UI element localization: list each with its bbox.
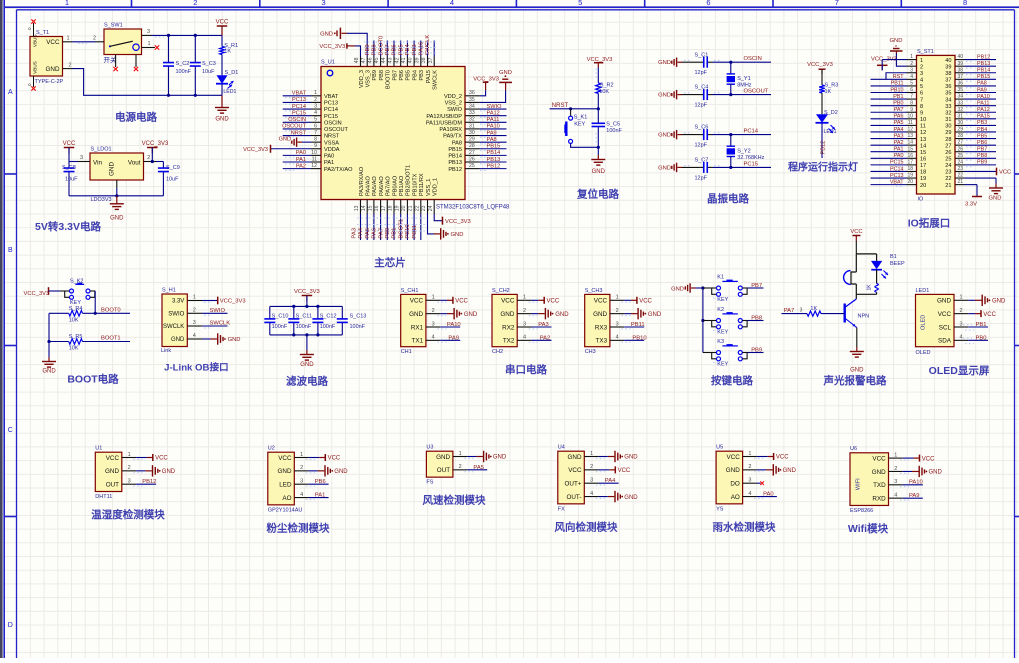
connector S_CH2	[492, 288, 532, 355]
svg-text:31: 31	[957, 113, 963, 119]
svg-text:OUT: OUT	[106, 482, 119, 489]
power port VCC (S_CH3 pin1)	[621, 297, 652, 305]
svg-text:PA0: PA0	[763, 491, 774, 497]
svg-text:AO: AO	[731, 494, 740, 501]
svg-text:GND: GND	[872, 469, 886, 476]
svg-text:100nF: 100nF	[272, 324, 288, 330]
svg-text:OSCOUT: OSCOUT	[282, 124, 307, 130]
svg-text:VCC: VCC	[938, 311, 952, 318]
svg-text:KEY: KEY	[717, 361, 728, 367]
svg-text:GND: GND	[624, 495, 638, 501]
svg-text:PA5: PA5	[473, 465, 484, 471]
title 温湿度检测模块	[91, 508, 165, 521]
svg-text:34: 34	[945, 97, 951, 103]
title 风速检测模块	[423, 494, 486, 507]
svg-text:PA4: PA4	[358, 227, 364, 238]
svg-text:40: 40	[957, 54, 963, 60]
svg-text:3: 3	[616, 321, 619, 327]
svg-text:S_H1: S_H1	[162, 288, 176, 294]
svg-text:GND: GND	[658, 133, 671, 139]
svg-text:1: 1	[65, 0, 69, 7]
svg-text:GND: GND	[228, 337, 241, 343]
svg-text:PB7: PB7	[385, 44, 391, 55]
svg-text:晶振电路: 晶振电路	[707, 192, 749, 205]
net label PA1 + wire (U2 pin4)	[306, 492, 329, 499]
svg-text:PB2/BOOT1: PB2/BOOT1	[406, 165, 412, 196]
capacitor S_C10 100nF	[264, 306, 288, 335]
svg-text:K3: K3	[717, 339, 724, 345]
power port VCC_3V3 at VDD_2 pin36	[473, 77, 499, 96]
svg-text:10uF: 10uF	[65, 177, 78, 183]
ground GND (J-Link pin4)	[202, 333, 240, 344]
svg-text:19: 19	[394, 205, 400, 211]
svg-text:27: 27	[945, 143, 951, 149]
svg-text:U4: U4	[558, 445, 565, 451]
svg-text:TX1: TX1	[412, 338, 424, 345]
svg-text:PA0: PA0	[324, 154, 334, 160]
svg-text:1K: 1K	[867, 284, 873, 291]
svg-text:7: 7	[835, 0, 839, 7]
svg-text:TYPE-C-2P: TYPE-C-2P	[35, 79, 64, 85]
svg-text:2: 2	[523, 308, 526, 314]
svg-text:PB6: PB6	[315, 479, 326, 485]
svg-text:PA2: PA2	[894, 140, 904, 146]
svg-text:C: C	[8, 427, 13, 434]
svg-text:VDDA: VDDA	[324, 147, 340, 153]
ground GND (LDO)	[110, 196, 124, 222]
svg-text:1: 1	[147, 41, 150, 47]
svg-text:PB4: PB4	[412, 70, 418, 81]
svg-text:风向检测模块: 风向检测模块	[555, 520, 618, 533]
title 晶振电路	[707, 192, 749, 205]
svg-text:DO: DO	[730, 481, 740, 488]
svg-text:PA1: PA1	[324, 160, 334, 166]
svg-text:NRST: NRST	[291, 130, 307, 136]
svg-text:A: A	[8, 89, 13, 96]
ground GND at VSSA pin8	[279, 137, 311, 147]
svg-text:VBAT: VBAT	[292, 91, 307, 97]
svg-text:U2: U2	[268, 446, 275, 452]
svg-text:OSCIN: OSCIN	[288, 117, 306, 123]
svg-text:PA8: PA8	[977, 81, 987, 87]
svg-text:4: 4	[450, 0, 454, 7]
svg-text:PA11: PA11	[977, 100, 989, 106]
svg-text:PA9/TX: PA9/TX	[443, 134, 462, 140]
svg-text:3.3V: 3.3V	[965, 202, 977, 208]
svg-text:S_C13: S_C13	[350, 313, 367, 319]
svg-text:PB4: PB4	[977, 127, 987, 133]
svg-text:28: 28	[945, 137, 951, 143]
svg-text:3: 3	[959, 321, 962, 327]
title 5V转3.3V电路	[35, 220, 101, 233]
svg-text:GND: GND	[464, 312, 478, 318]
title 串口电路	[505, 363, 547, 376]
ground GND at VSS_1 pin23 (bottom)	[428, 214, 464, 240]
svg-text:1K: 1K	[224, 49, 231, 55]
resistor S_R3 1K	[819, 69, 838, 114]
svg-text:PB9: PB9	[977, 160, 987, 166]
svg-text:风速检测模块: 风速检测模块	[423, 494, 486, 507]
svg-text:OUT-: OUT-	[566, 494, 581, 501]
svg-text:3: 3	[314, 103, 317, 109]
svg-text:2: 2	[616, 308, 619, 314]
capacitor S_C7 12pF	[682, 158, 713, 182]
svg-text:VCC: VCC	[568, 467, 582, 474]
wire VCC rail top	[152, 34, 223, 37]
svg-text:3: 3	[432, 321, 435, 327]
svg-text:VCC: VCC	[216, 20, 229, 26]
svg-text:S_R3: S_R3	[825, 83, 839, 89]
svg-text:SWCLK: SWCLK	[433, 70, 439, 90]
svg-text:13: 13	[907, 133, 913, 139]
resistor S_R2 10K	[596, 68, 614, 109]
svg-text:S_C12: S_C12	[320, 313, 337, 319]
svg-text:PB3: PB3	[419, 70, 425, 81]
svg-text:PC14: PC14	[744, 129, 759, 135]
svg-text:40: 40	[408, 57, 414, 63]
ground GND (crystal row 3)	[658, 130, 682, 139]
svg-text:TX3: TX3	[596, 338, 608, 345]
svg-text:S_LDO1: S_LDO1	[91, 147, 112, 153]
svg-text:GND: GND	[320, 31, 333, 37]
power port VCC_3V3 at VDD_3 pin48 (top)	[319, 43, 360, 56]
svg-text:PB8: PB8	[751, 316, 762, 322]
svg-text:BOOT0: BOOT0	[378, 36, 384, 56]
net label PB11 + wire (S_CH3 pin3)	[621, 322, 644, 329]
ground GND (crystal row 2)	[658, 90, 682, 99]
svg-text:KEY: KEY	[574, 122, 585, 128]
alarm top wire	[856, 253, 876, 255]
svg-text:VDD_1: VDD_1	[433, 178, 439, 196]
svg-text:31: 31	[469, 123, 475, 129]
ground GND (alarm)	[850, 328, 864, 374]
svg-text:2: 2	[193, 308, 196, 314]
svg-text:PB12: PB12	[448, 167, 462, 173]
svg-text:7: 7	[920, 97, 923, 103]
svg-text:S_CH3: S_CH3	[585, 288, 603, 294]
power port VCC_3V3 at VDDA pin9	[243, 145, 311, 153]
svg-text:33: 33	[469, 110, 475, 116]
switch S_SW1 开关	[93, 23, 155, 68]
svg-text:34: 34	[469, 103, 475, 109]
svg-text:22: 22	[945, 176, 951, 182]
svg-text:PB10: PB10	[632, 335, 646, 341]
svg-text:TX2: TX2	[503, 338, 515, 345]
svg-text:PA15: PA15	[426, 70, 432, 83]
net label PA0 + wire (U5 pin4)	[754, 491, 777, 498]
ground GND (OLED pin1)	[968, 295, 1006, 306]
svg-text:PB9: PB9	[372, 70, 378, 81]
svg-text:SWIO: SWIO	[168, 312, 184, 318]
svg-text:OSCOUT: OSCOUT	[324, 127, 349, 133]
svg-text:D: D	[8, 622, 13, 629]
svg-text:16: 16	[920, 157, 926, 163]
title 风向检测模块	[555, 520, 618, 533]
svg-text:PA9: PA9	[977, 87, 987, 93]
svg-text:RX1: RX1	[411, 324, 424, 331]
svg-text:声光报警电路: 声光报警电路	[823, 374, 887, 387]
LED S_D2	[816, 110, 838, 135]
svg-text:GND: GND	[929, 470, 943, 476]
svg-text:PC15: PC15	[744, 161, 759, 167]
svg-text:39: 39	[957, 61, 963, 67]
svg-text:30: 30	[957, 120, 963, 126]
svg-text:4: 4	[432, 335, 435, 341]
svg-text:OSCOUT: OSCOUT	[744, 89, 769, 95]
svg-text:2: 2	[432, 308, 435, 314]
capacitor S_C11 100nF	[288, 306, 312, 335]
pin stubs + numbers 13-24 (bottom)	[354, 200, 434, 215]
svg-text:开关: 开关	[104, 55, 118, 64]
svg-text:BOOT电路: BOOT电路	[67, 373, 119, 386]
regulator S_LDO1 LDO3V3	[78, 147, 157, 204]
svg-text:主芯片: 主芯片	[374, 256, 406, 269]
svg-text:CH1: CH1	[401, 349, 412, 355]
svg-text:GND: GND	[658, 165, 671, 171]
pushbutton K1 KEY	[703, 274, 748, 303]
svg-text:GND: GND	[992, 299, 1006, 305]
svg-text:12pF: 12pF	[695, 103, 708, 109]
svg-text:PB13: PB13	[448, 160, 462, 166]
svg-text:S_ST1: S_ST1	[917, 49, 934, 55]
svg-text:PB5: PB5	[398, 44, 404, 55]
ground GND (S_CH1 pin2)	[437, 308, 478, 319]
svg-text:Link: Link	[161, 348, 171, 354]
svg-text:BOOT0: BOOT0	[101, 307, 121, 313]
svg-text:25: 25	[957, 153, 963, 159]
svg-text:PA2/TX/AO: PA2/TX/AO	[324, 167, 353, 173]
resistor 1K (buzzer)	[867, 284, 879, 295]
ground GND at VSS_3 pin47 (top)	[320, 28, 367, 57]
svg-text:PC14: PC14	[292, 104, 306, 110]
svg-text:20: 20	[401, 205, 407, 211]
svg-text:41: 41	[401, 57, 407, 63]
svg-text:12: 12	[907, 127, 913, 133]
svg-text:32: 32	[945, 110, 951, 116]
svg-text:VCC: VCC	[410, 298, 424, 305]
svg-text:10: 10	[311, 150, 317, 156]
svg-text:3: 3	[920, 71, 923, 77]
connector S_CH3	[585, 288, 625, 355]
svg-text:PA11: PA11	[487, 117, 500, 123]
svg-text:9: 9	[920, 110, 923, 116]
svg-text:S_CH2: S_CH2	[492, 288, 510, 294]
svg-text:OLED: OLED	[921, 315, 927, 330]
title 雨水检测模块	[713, 520, 776, 533]
svg-text:36: 36	[957, 81, 963, 87]
title 粉尘检测模块	[267, 521, 330, 534]
svg-text:U1: U1	[95, 446, 102, 452]
svg-text:6: 6	[920, 91, 923, 97]
svg-text:GND: GND	[648, 312, 662, 318]
svg-text:30: 30	[469, 130, 475, 136]
svg-text:39: 39	[945, 64, 951, 70]
svg-text:PC15: PC15	[292, 110, 306, 116]
svg-text:16: 16	[374, 205, 380, 211]
svg-text:20: 20	[907, 179, 913, 185]
crystal S_Y2 32.768KHz	[727, 135, 765, 168]
net label PB10 + wire (S_CH3 pin4)	[621, 335, 646, 342]
svg-text:12pF: 12pF	[695, 70, 708, 76]
svg-text:PB11: PB11	[412, 225, 418, 239]
svg-text:SDA: SDA	[938, 338, 952, 345]
svg-text:17: 17	[907, 159, 913, 165]
svg-text:45: 45	[374, 57, 380, 63]
svg-text:S_D1: S_D1	[225, 70, 239, 76]
svg-text:2: 2	[748, 464, 751, 470]
svg-text:100nF: 100nF	[350, 324, 366, 330]
display LED1 OLED	[916, 288, 969, 356]
svg-text:29: 29	[957, 127, 963, 133]
svg-text:100nF: 100nF	[320, 324, 336, 330]
net label NRST + wire	[550, 103, 600, 111]
svg-text:10uF: 10uF	[166, 177, 179, 183]
svg-text:2: 2	[68, 62, 71, 68]
svg-text:2: 2	[910, 61, 913, 67]
svg-text:VCC: VCC	[328, 456, 341, 462]
svg-text:8: 8	[314, 137, 317, 143]
svg-text:VSS_3: VSS_3	[366, 70, 372, 87]
svg-text:VCC: VCC	[850, 229, 862, 235]
svg-text:LED: LED	[279, 482, 292, 489]
module U3 FS	[426, 445, 467, 486]
svg-text:PA2: PA2	[540, 335, 551, 341]
svg-text:3: 3	[322, 0, 326, 7]
svg-text:LED1: LED1	[223, 89, 236, 95]
svg-text:17: 17	[920, 163, 926, 169]
power port VCC_3V3 (BOOT)	[24, 287, 61, 297]
ground GND (S_ST1 pin22)	[965, 178, 1004, 201]
svg-text:9: 9	[910, 107, 913, 113]
wire + net label OSCIN	[713, 56, 772, 64]
svg-text:SWIO: SWIO	[210, 308, 226, 314]
svg-text:PB11/RX: PB11/RX	[419, 173, 425, 196]
pushbutton K3 KEY	[703, 339, 748, 368]
svg-text:15: 15	[368, 205, 374, 211]
svg-text:11: 11	[312, 156, 317, 162]
svg-text:NPN: NPN	[858, 314, 870, 320]
svg-text:47: 47	[361, 57, 367, 63]
svg-text:VCC_3V3: VCC_3V3	[220, 299, 246, 305]
svg-text:10uF: 10uF	[202, 69, 215, 75]
svg-text:PC13: PC13	[890, 173, 904, 179]
speaker LS (sound)	[844, 254, 857, 294]
svg-text:PB1: PB1	[893, 94, 903, 100]
svg-text:PB14: PB14	[448, 154, 462, 160]
ground GND (U6 pin2)	[900, 466, 943, 477]
svg-text:PB0: PB0	[385, 228, 391, 239]
svg-text:PB4: PB4	[405, 44, 411, 56]
svg-text:PB6: PB6	[399, 70, 405, 81]
resistor S_R4 10K + net BOOT0	[49, 291, 130, 324]
svg-text:46: 46	[368, 57, 374, 63]
svg-text:PA12/USB/DP: PA12/USB/DP	[426, 114, 462, 120]
column zone labels 1-8	[65, 0, 967, 7]
svg-text:18: 18	[920, 170, 926, 176]
svg-text:12: 12	[920, 130, 926, 136]
svg-text:PA9: PA9	[487, 130, 497, 136]
ground GND (reset)	[591, 147, 605, 175]
svg-text:KEY: KEY	[717, 329, 728, 335]
svg-text:S_C3: S_C3	[202, 61, 216, 67]
svg-text:Vin: Vin	[93, 159, 102, 166]
ground GND (filter)	[300, 335, 314, 368]
svg-text:22: 22	[414, 205, 420, 211]
svg-text:PB6: PB6	[392, 44, 398, 55]
svg-text:电源电路: 电源电路	[115, 111, 157, 124]
svg-text:24: 24	[945, 163, 951, 169]
svg-text:S_T1: S_T1	[36, 30, 49, 36]
net label PA9 + wire (U6 pin4)	[900, 493, 923, 500]
svg-text:48: 48	[354, 57, 360, 63]
ground GND (BOOT)	[42, 313, 56, 374]
svg-text:PA12: PA12	[977, 107, 990, 113]
svg-text:PA7: PA7	[784, 308, 795, 314]
svg-text:RST: RST	[893, 74, 904, 80]
svg-text:NRST: NRST	[552, 103, 569, 109]
svg-text:2: 2	[920, 64, 923, 70]
svg-text:PA1: PA1	[296, 157, 306, 163]
svg-text:GND: GND	[671, 286, 684, 292]
svg-text:VBAT: VBAT	[890, 179, 904, 185]
svg-text:S_C6: S_C6	[695, 125, 709, 131]
svg-text:19: 19	[920, 176, 926, 182]
filter bottom rail wire	[270, 333, 343, 336]
svg-text:VCC: VCC	[727, 454, 741, 461]
svg-text:PA9: PA9	[448, 335, 459, 341]
svg-text:2: 2	[93, 36, 96, 42]
no-connect (U5 pin3)	[757, 481, 764, 485]
keys common wire	[701, 286, 704, 352]
svg-text:PB1: PB1	[976, 322, 987, 328]
svg-text:PB11: PB11	[891, 81, 904, 87]
svg-text:VCC: VCC	[639, 299, 652, 305]
svg-text:GND: GND	[555, 312, 569, 318]
power port 3.3V (S_ST1 pin21)	[965, 185, 983, 208]
LED S_D1	[216, 70, 238, 96]
svg-text:7: 7	[910, 94, 913, 100]
svg-text:PB12: PB12	[142, 479, 156, 485]
svg-text:7: 7	[314, 130, 317, 136]
module U5 YS	[716, 445, 757, 513]
svg-text:4: 4	[920, 78, 923, 84]
crystal S_Y1 8MHz	[727, 62, 752, 94]
svg-text:PB3: PB3	[977, 120, 987, 126]
svg-text:PA7/AO: PA7/AO	[386, 176, 392, 196]
svg-text:GND: GND	[592, 169, 606, 175]
svg-text:VCC: VCC	[106, 455, 120, 462]
pin stubs + numbers (S_ST1 right)	[955, 54, 965, 185]
svg-text:2: 2	[193, 0, 197, 7]
power port VCC_3V3 (indicator)	[807, 62, 833, 74]
svg-text:PA3: PA3	[352, 228, 358, 239]
svg-text:1: 1	[910, 54, 913, 60]
svg-text:37: 37	[957, 74, 963, 80]
svg-text:GND: GND	[105, 468, 119, 475]
svg-text:2: 2	[459, 464, 462, 470]
svg-text:雨水检测模块: 雨水检测模块	[713, 520, 776, 533]
svg-text:S_K1: S_K1	[574, 115, 587, 121]
svg-text:38: 38	[421, 57, 427, 63]
svg-text:VCC: VCC	[46, 39, 60, 46]
svg-text:GND: GND	[493, 455, 507, 461]
svg-text:PC13: PC13	[292, 97, 306, 103]
svg-text:1: 1	[959, 295, 962, 301]
svg-text:42: 42	[394, 57, 400, 63]
svg-text:OSCIN: OSCIN	[744, 56, 762, 62]
svg-text:GND: GND	[989, 196, 1002, 202]
svg-text:PC14: PC14	[324, 107, 338, 113]
